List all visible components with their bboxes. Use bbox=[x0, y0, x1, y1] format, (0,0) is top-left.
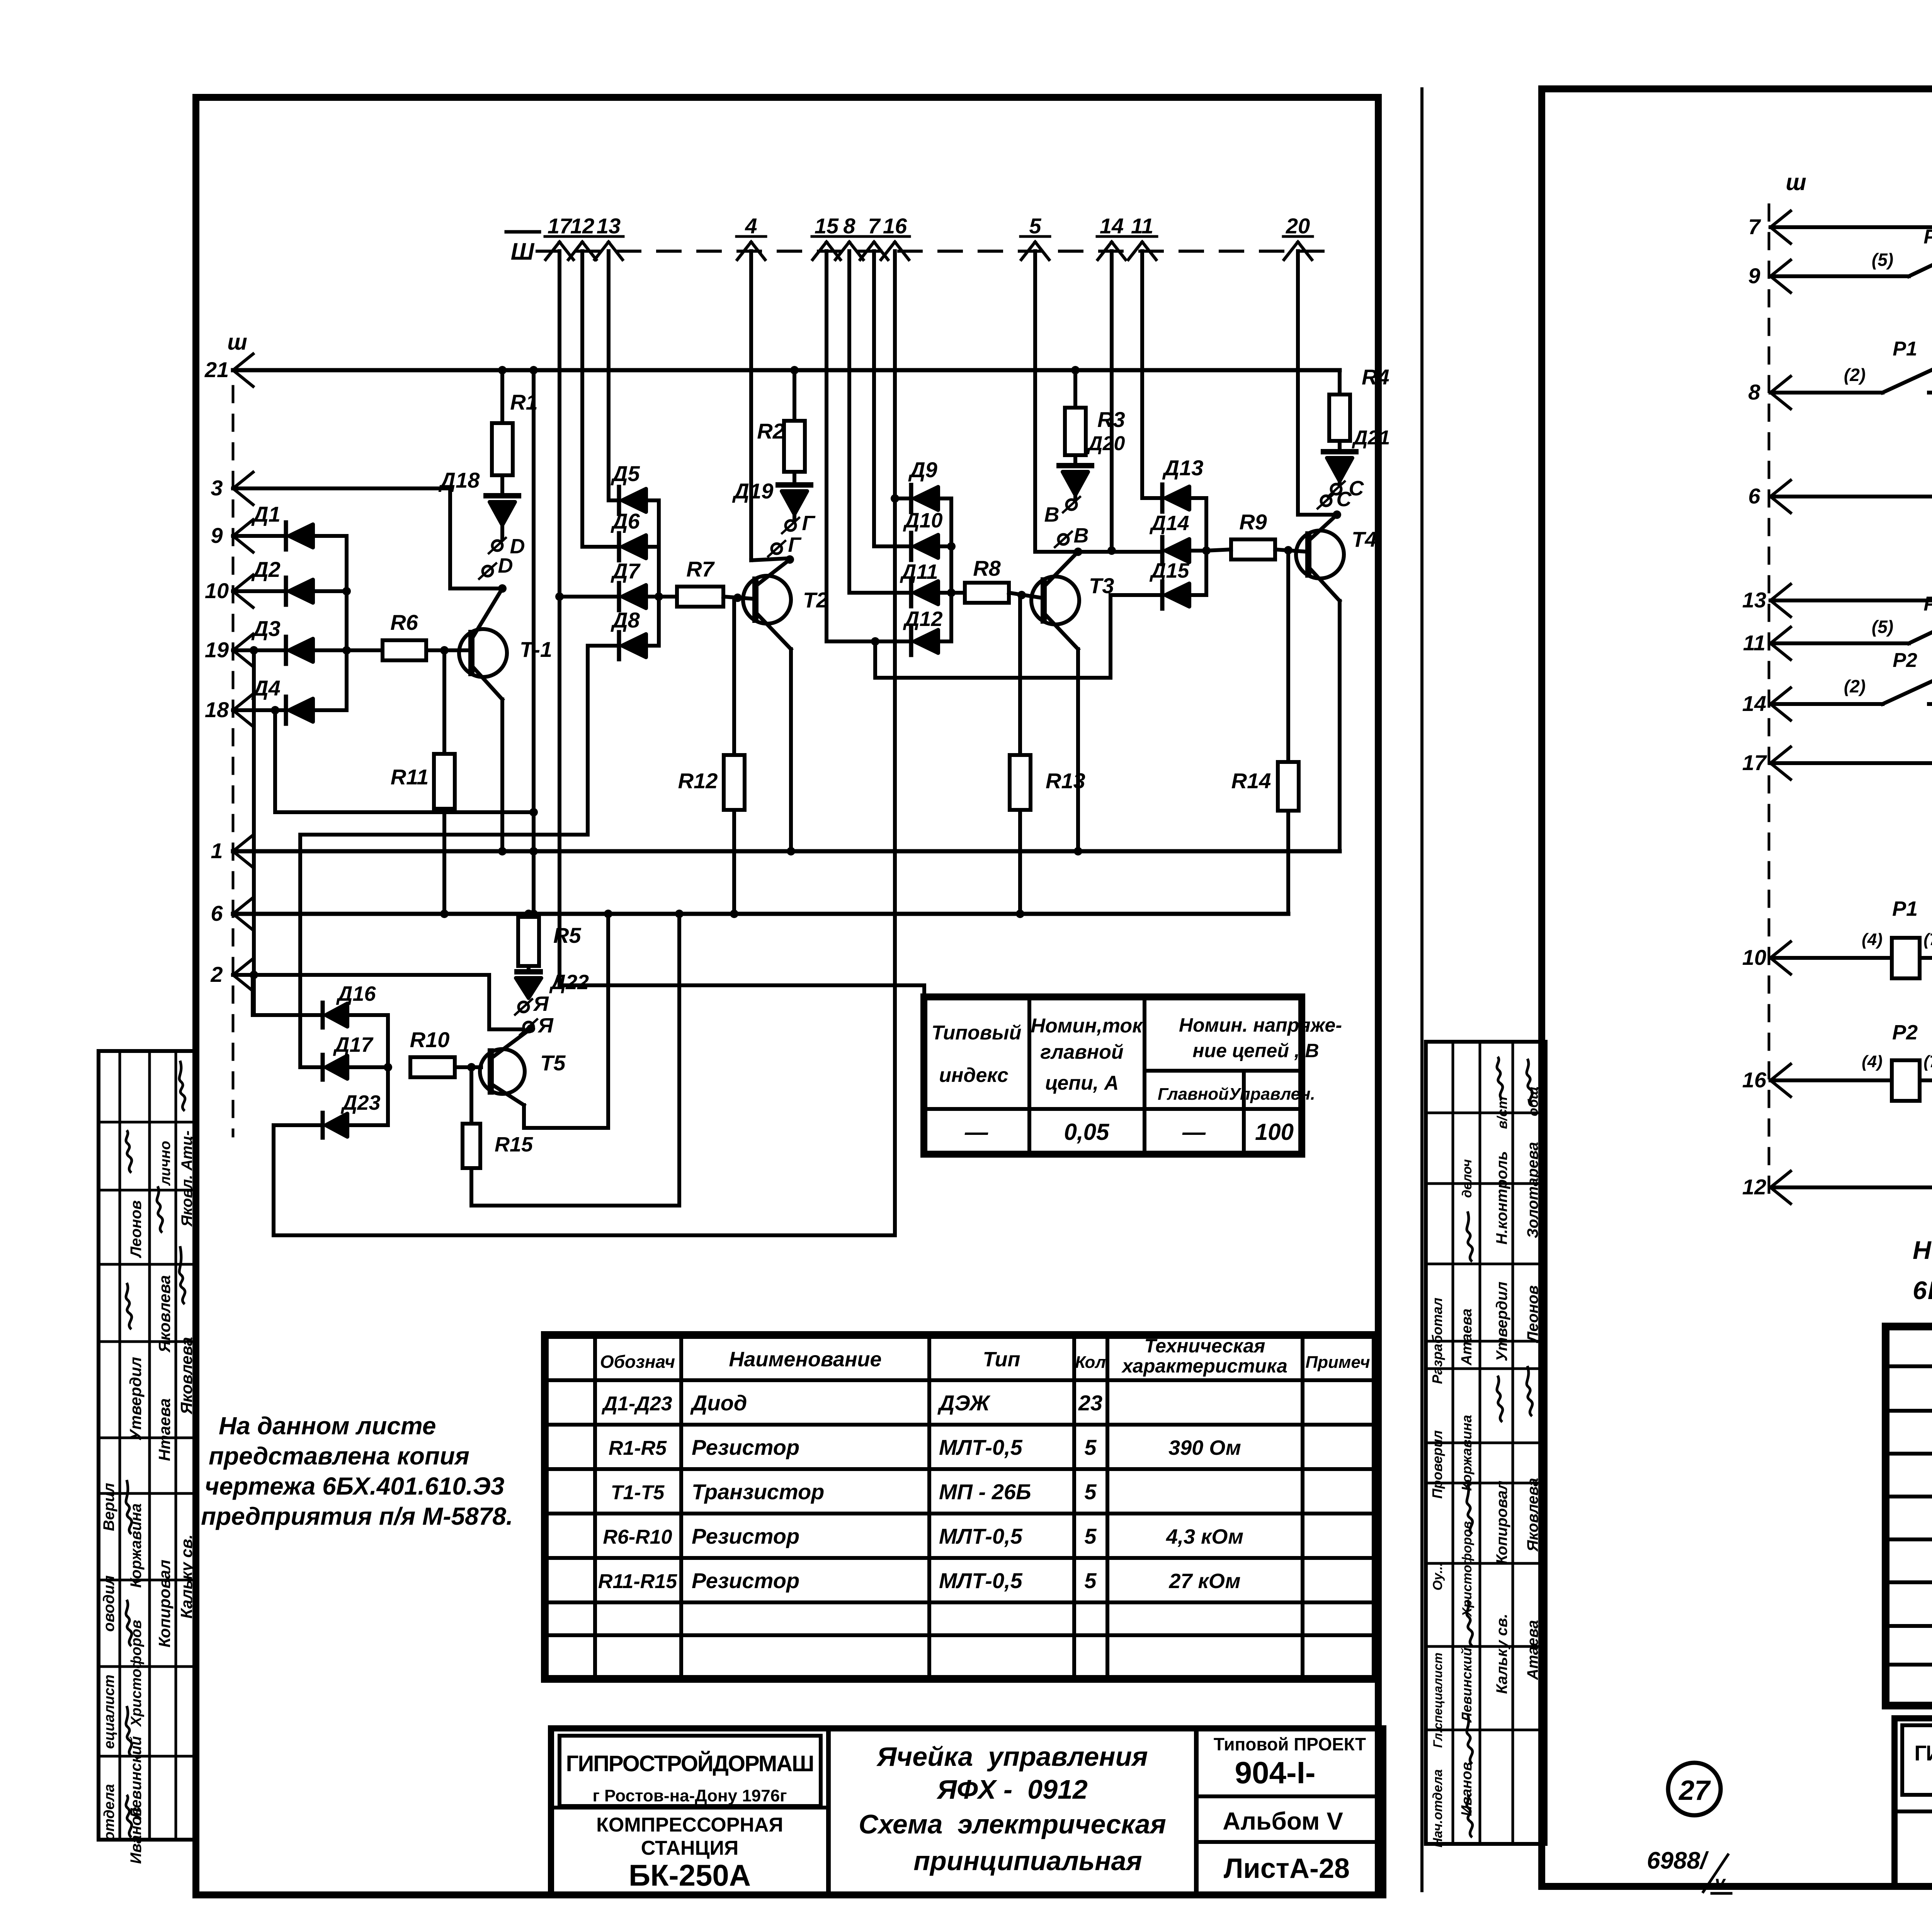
diode D5 bbox=[617, 487, 621, 514]
svg-text:Коржавина: Коржавина bbox=[1459, 1415, 1475, 1491]
svg-text:Д11: Д11 bbox=[900, 560, 938, 583]
svg-text:Д13: Д13 bbox=[1162, 456, 1204, 480]
diode D9 bbox=[891, 494, 899, 503]
T3 collector bbox=[1044, 613, 1078, 649]
svg-text:904-I-: 904-I- bbox=[1235, 1755, 1316, 1790]
right sheet terminal 10 bbox=[1770, 942, 1791, 958]
svg-text:5: 5 bbox=[1084, 1480, 1097, 1504]
wire node B line bbox=[1035, 550, 1160, 554]
svg-text:Наименование: Наименование bbox=[729, 1348, 881, 1371]
svg-text:Кальку св.: Кальку св. bbox=[177, 1534, 196, 1619]
svg-text:Резистор: Резистор bbox=[692, 1568, 799, 1593]
wire drop 14 bbox=[1110, 251, 1114, 551]
svg-text:15: 15 bbox=[815, 214, 839, 238]
wire R7 to T2 bbox=[723, 597, 755, 599]
svg-text:Д21: Д21 bbox=[1352, 427, 1390, 449]
svg-text:17: 17 bbox=[548, 214, 573, 238]
svg-text:27 кОм: 27 кОм bbox=[1168, 1570, 1240, 1593]
right sheet terminal 12 bbox=[1770, 1171, 1791, 1187]
terminal 3 bbox=[233, 472, 253, 488]
svg-text:Типовый: Типовый bbox=[932, 1022, 1022, 1044]
svg-text:(4): (4) bbox=[1862, 1052, 1883, 1071]
diode D19 bbox=[793, 472, 796, 485]
resistor R13 bbox=[1018, 595, 1022, 755]
T1 collector bbox=[471, 665, 502, 699]
T2 collector bbox=[755, 612, 791, 649]
right sheet terminal 14 bbox=[1770, 688, 1791, 704]
svg-text:12: 12 bbox=[570, 214, 594, 238]
T4 collector bbox=[1308, 567, 1340, 601]
svg-text:Кальку св.: Кальку св. bbox=[1493, 1614, 1510, 1694]
diode D7 bbox=[560, 595, 617, 599]
bus terminal 17 arrow bbox=[546, 242, 560, 260]
diode D3 bbox=[284, 637, 288, 664]
svg-text:Д5: Д5 bbox=[611, 461, 640, 486]
svg-text:представлена копия: представлена копия bbox=[209, 1442, 469, 1470]
svg-text:отдела: отдела bbox=[101, 1784, 117, 1840]
svg-text:Номин. напряже-: Номин. напряже- bbox=[1179, 1014, 1342, 1036]
svg-text:100: 100 bbox=[1255, 1119, 1294, 1145]
svg-text:9: 9 bbox=[1748, 264, 1760, 288]
svg-text:ЛистА-28: ЛистА-28 bbox=[1224, 1853, 1350, 1884]
svg-text:Д17: Д17 bbox=[333, 1033, 374, 1056]
bus terminal 20 arrow bbox=[1284, 242, 1298, 260]
svg-text:цепи, А: цепи, А bbox=[1045, 1072, 1119, 1094]
svg-text:(5): (5) bbox=[1872, 250, 1893, 270]
svg-text:Атаева: Атаева bbox=[1459, 1308, 1475, 1366]
svg-text:Д1: Д1 bbox=[251, 502, 281, 526]
svg-text:6988/: 6988/ bbox=[1647, 1847, 1709, 1874]
bus terminal 14 arrow bbox=[1098, 242, 1112, 260]
svg-text:Копировал: Копировал bbox=[155, 1560, 173, 1647]
svg-text:Я: Я bbox=[532, 992, 549, 1015]
svg-text:СТАНЦИЯ: СТАНЦИЯ bbox=[641, 1837, 739, 1859]
svg-text:Нтаева: Нтаева bbox=[155, 1398, 173, 1461]
svg-text:Д16: Д16 bbox=[336, 982, 376, 1005]
diode D17 bbox=[300, 1065, 320, 1069]
svg-text:Я: Я bbox=[537, 1014, 554, 1037]
svg-text:Д14: Д14 bbox=[1149, 512, 1189, 535]
svg-text:v: v bbox=[1715, 1872, 1726, 1893]
svg-text:Кол: Кол bbox=[1075, 1353, 1106, 1372]
svg-text:R3: R3 bbox=[1097, 407, 1125, 432]
title block right sheet bbox=[1895, 1718, 1932, 1886]
node Ya upper bbox=[519, 1002, 529, 1012]
terminal 10 bbox=[233, 575, 253, 591]
svg-text:характеристика: характеристика bbox=[1121, 1355, 1287, 1377]
node C under D21 bbox=[1331, 484, 1341, 494]
svg-text:11: 11 bbox=[1131, 214, 1153, 238]
svg-text:Разработал: Разработал bbox=[1429, 1298, 1445, 1384]
diode D20 bbox=[1073, 455, 1077, 466]
svg-text:11: 11 bbox=[1743, 631, 1765, 655]
diode D22 bbox=[527, 966, 531, 972]
svg-text:9: 9 bbox=[211, 523, 223, 548]
resistor R1 bbox=[500, 370, 504, 423]
svg-text:Р2: Р2 bbox=[1923, 593, 1932, 615]
terminal 18 bbox=[233, 694, 253, 710]
svg-text:R2: R2 bbox=[757, 419, 785, 443]
terminal 19 bbox=[233, 634, 253, 650]
diode D18 bbox=[500, 475, 504, 496]
svg-text:5: 5 bbox=[1084, 1524, 1097, 1548]
relay coil P2 bbox=[1770, 1078, 1892, 1082]
svg-text:оводил: оводил bbox=[100, 1575, 117, 1632]
svg-text:Главной: Главной bbox=[1158, 1085, 1229, 1104]
svg-text:(5): (5) bbox=[1872, 617, 1893, 637]
diode D23 bbox=[274, 1123, 320, 1127]
svg-text:Т3: Т3 bbox=[1089, 573, 1114, 598]
svg-text:390 Ом: 390 Ом bbox=[1168, 1436, 1241, 1459]
svg-text:5: 5 bbox=[1029, 214, 1041, 238]
wire R8 to T3 bbox=[1009, 593, 1044, 598]
wire R6 to T1 bbox=[426, 648, 471, 652]
svg-text:Примеч: Примеч bbox=[1306, 1353, 1370, 1372]
svg-text:R4: R4 bbox=[1362, 365, 1389, 389]
svg-text:(7): (7) bbox=[1923, 930, 1932, 949]
svg-text:16: 16 bbox=[883, 214, 907, 238]
right margin signature strip bbox=[1426, 1042, 1546, 1844]
terminal 2 bbox=[233, 959, 253, 975]
right sheet terminal 8 bbox=[1770, 376, 1791, 393]
svg-text:Утвердил: Утвердил bbox=[126, 1357, 145, 1441]
wire drop 20 bbox=[1296, 251, 1300, 515]
svg-text:—: — bbox=[964, 1119, 988, 1145]
svg-text:D: D bbox=[498, 554, 513, 577]
svg-text:ш: ш bbox=[227, 330, 247, 355]
svg-text:5: 5 bbox=[1084, 1568, 1097, 1593]
svg-text:27: 27 bbox=[1678, 1775, 1711, 1806]
svg-text:Яковлева: Яковлева bbox=[177, 1337, 196, 1415]
svg-text:6: 6 bbox=[211, 901, 223, 925]
right sheet terminal 11 bbox=[1770, 627, 1791, 643]
wire drop 11 bbox=[1140, 251, 1144, 498]
wire line 21 bbox=[233, 368, 1340, 372]
svg-text:7: 7 bbox=[868, 214, 881, 238]
svg-text:Д15: Д15 bbox=[1149, 559, 1189, 582]
svg-text:7: 7 bbox=[1748, 214, 1761, 239]
resistor R7 bbox=[659, 595, 677, 599]
left sheet border frame bbox=[196, 97, 1378, 1895]
resistor R5 bbox=[524, 910, 533, 918]
svg-text:R7: R7 bbox=[686, 557, 715, 581]
svg-text:Гл.специалист: Гл.специалист bbox=[1431, 1653, 1445, 1748]
right sheet left dashed bus bbox=[1768, 205, 1770, 1194]
svg-text:ГИПРОСТРОЙДОРМАШ: ГИПРОСТРОЙДОРМАШ bbox=[1914, 1741, 1932, 1765]
svg-text:Яковл. Атц-: Яковл. Атц- bbox=[179, 1131, 196, 1227]
wire drop 17 bbox=[558, 251, 561, 985]
resistor R3 bbox=[1073, 370, 1077, 408]
wire line 18 bbox=[233, 708, 286, 712]
svg-text:18: 18 bbox=[205, 697, 229, 722]
svg-text:Д6: Д6 bbox=[611, 509, 640, 533]
svg-text:Д18: Д18 bbox=[439, 468, 480, 492]
diode D6 bbox=[617, 533, 621, 560]
svg-text:Номин,ток: Номин,ток bbox=[1031, 1015, 1143, 1037]
svg-text:R6: R6 bbox=[390, 610, 418, 634]
node G under D19 bbox=[786, 520, 796, 531]
svg-text:16: 16 bbox=[1742, 1068, 1767, 1092]
svg-text:10: 10 bbox=[205, 578, 229, 603]
right sheet terminal 16 bbox=[1770, 1064, 1791, 1080]
svg-text:Яковлева: Яковлева bbox=[1524, 1478, 1541, 1552]
svg-text:Альбом V: Альбом V bbox=[1223, 1807, 1343, 1835]
svg-text:(7): (7) bbox=[1923, 1052, 1932, 1071]
terminal 21 bbox=[233, 354, 253, 370]
component table right sheet bbox=[1886, 1327, 1932, 1706]
title block left sheet bbox=[551, 1728, 1383, 1895]
svg-text:Н.контроль: Н.контроль bbox=[1493, 1151, 1510, 1245]
svg-text:R9: R9 bbox=[1239, 510, 1267, 534]
node C at T4 bbox=[1321, 496, 1331, 506]
svg-text:Д2: Д2 bbox=[251, 557, 281, 582]
svg-text:R12: R12 bbox=[678, 769, 718, 793]
resistor R9 bbox=[1206, 549, 1231, 551]
svg-text:0,05: 0,05 bbox=[1064, 1119, 1110, 1145]
bus terminal 8 arrow bbox=[835, 242, 849, 260]
svg-text:Ячейка управления: Ячейка управления bbox=[876, 1742, 1148, 1772]
svg-text:Д12: Д12 bbox=[903, 607, 942, 631]
svg-text:Управлен.: Управлен. bbox=[1229, 1085, 1315, 1104]
svg-text:Обознач: Обознач bbox=[600, 1352, 675, 1372]
wire D8 branch bbox=[586, 646, 590, 835]
node B under D20 bbox=[1066, 500, 1077, 510]
wire drop x1381 bbox=[532, 370, 536, 914]
svg-text:Утвердил: Утвердил bbox=[1493, 1282, 1510, 1362]
diode D10 bbox=[909, 533, 913, 560]
svg-text:8: 8 bbox=[1748, 380, 1760, 404]
svg-text:21: 21 bbox=[204, 357, 229, 382]
diode D21 bbox=[1338, 441, 1342, 452]
svg-text:в/ст: в/ст bbox=[1494, 1097, 1510, 1129]
svg-text:10: 10 bbox=[1742, 945, 1766, 969]
svg-text:ециалист: ециалист bbox=[101, 1675, 117, 1749]
svg-text:R13: R13 bbox=[1046, 769, 1085, 793]
diode D15 bbox=[1160, 582, 1165, 609]
svg-text:(2): (2) bbox=[1844, 676, 1866, 696]
svg-text:14: 14 bbox=[1742, 691, 1766, 716]
wire line19 branch bbox=[252, 650, 256, 1015]
wire line 2 bbox=[233, 973, 489, 977]
svg-text:(4): (4) bbox=[1862, 930, 1883, 949]
node Ya lower bbox=[524, 1022, 534, 1032]
bus terminal 11 arrow bbox=[1128, 242, 1142, 260]
svg-text:делоч: делоч bbox=[1460, 1159, 1475, 1198]
bus terminal 12 arrow bbox=[568, 242, 582, 260]
svg-text:Д20: Д20 bbox=[1087, 432, 1125, 455]
svg-text:Д22: Д22 bbox=[549, 971, 589, 994]
svg-text:Р1: Р1 bbox=[1892, 897, 1918, 920]
svg-text:Диод: Диод bbox=[690, 1391, 747, 1415]
diode D4 bbox=[284, 697, 288, 724]
svg-text:Т2: Т2 bbox=[803, 588, 828, 612]
svg-text:Проверил: Проверил bbox=[1429, 1430, 1445, 1498]
wire D23 long link bbox=[274, 1233, 895, 1237]
svg-text:Д8: Д8 bbox=[611, 608, 640, 632]
svg-text:(2): (2) bbox=[1844, 365, 1866, 385]
svg-text:23: 23 bbox=[1078, 1391, 1102, 1415]
diode D14 bbox=[1160, 537, 1165, 564]
svg-text:4: 4 bbox=[745, 214, 757, 238]
T2 emitter bbox=[755, 560, 790, 586]
resistor R15 bbox=[469, 1067, 473, 1124]
svg-text:R11-R15: R11-R15 bbox=[598, 1570, 677, 1593]
diode D11 bbox=[909, 579, 913, 606]
bus terminal 7 arrow bbox=[860, 242, 874, 260]
bus terminal 5 arrow bbox=[1021, 242, 1035, 260]
svg-text:14: 14 bbox=[1100, 214, 1124, 238]
relay coil P1 bbox=[1770, 956, 1892, 960]
resistor R8 bbox=[951, 591, 965, 595]
wire line 6 bbox=[233, 912, 1288, 916]
transistor T5 bbox=[480, 1049, 525, 1094]
svg-text:Г: Г bbox=[788, 533, 802, 556]
svg-text:Левинский: Левинский bbox=[1459, 1648, 1475, 1723]
diode D2 bbox=[284, 578, 288, 605]
svg-text:R14: R14 bbox=[1231, 769, 1271, 793]
svg-text:индекс: индекс bbox=[939, 1064, 1009, 1087]
wire stack2 right bbox=[949, 498, 953, 641]
svg-text:Оу...: Оу... bbox=[1430, 1563, 1445, 1590]
svg-text:Транзистор: Транзистор bbox=[692, 1480, 824, 1504]
wire line 13 bbox=[1770, 599, 1932, 602]
svg-text:Д19: Д19 bbox=[732, 479, 774, 503]
wire stack3 right bbox=[1204, 498, 1208, 595]
svg-text:Коржавина: Коржавина bbox=[128, 1503, 145, 1588]
svg-text:Золотарева: Золотарева bbox=[1524, 1142, 1541, 1238]
svg-text:Р2: Р2 bbox=[1893, 649, 1917, 672]
svg-text:Т4: Т4 bbox=[1352, 527, 1377, 551]
svg-text:Р2: Р2 bbox=[1892, 1021, 1918, 1044]
svg-text:13: 13 bbox=[1742, 588, 1766, 612]
wire line 3 bbox=[233, 486, 450, 490]
svg-text:предприятия п/я М-5878.: предприятия п/я М-5878. bbox=[201, 1502, 513, 1530]
wire line 7 bbox=[1770, 225, 1932, 229]
diode D1 bbox=[284, 522, 288, 549]
svg-text:20: 20 bbox=[1286, 214, 1310, 238]
terminal 1 bbox=[233, 835, 253, 851]
svg-text:МЛТ-0,5: МЛТ-0,5 bbox=[939, 1568, 1023, 1593]
resistor R2 bbox=[793, 370, 796, 421]
wire drop 8 bbox=[847, 251, 851, 593]
terminal 6 bbox=[233, 898, 253, 914]
svg-text:Леонов: Леонов bbox=[1524, 1285, 1541, 1343]
contact P2 lower bbox=[1770, 702, 1883, 706]
bus Sh dashed line bbox=[537, 250, 1325, 253]
svg-text:Т5: Т5 bbox=[540, 1051, 566, 1075]
svg-text:3: 3 bbox=[211, 476, 223, 500]
svg-text:МП - 26Б: МП - 26Б bbox=[939, 1480, 1031, 1504]
small table left sheet bbox=[924, 997, 1302, 1154]
bus terminal 4 arrow bbox=[737, 242, 751, 260]
svg-text:R6-R10: R6-R10 bbox=[603, 1526, 672, 1548]
transistor T2 bbox=[743, 576, 791, 624]
svg-text:R5: R5 bbox=[553, 923, 581, 947]
svg-text:принципиальная: принципиальная bbox=[913, 1846, 1142, 1876]
resistor R6 bbox=[347, 648, 383, 652]
svg-text:12: 12 bbox=[1742, 1175, 1766, 1199]
svg-text:г Ростов-на-Дону 1976г: г Ростов-на-Дону 1976г bbox=[592, 1786, 787, 1805]
wire D12 feedback bbox=[873, 641, 877, 678]
svg-text:5: 5 bbox=[1084, 1435, 1097, 1459]
svg-text:Яковлева: Яковлева bbox=[155, 1275, 173, 1353]
svg-text:главной: главной bbox=[1040, 1041, 1123, 1063]
svg-text:2: 2 bbox=[210, 962, 223, 986]
svg-text:КОМПРЕССОРНАЯ: КОМПРЕССОРНАЯ bbox=[596, 1814, 783, 1836]
svg-text:В: В bbox=[1074, 524, 1089, 547]
resistor R10 bbox=[410, 1057, 455, 1077]
svg-text:ние цепей , В: ние цепей , В bbox=[1192, 1040, 1319, 1061]
svg-text:1: 1 bbox=[211, 838, 223, 863]
svg-text:6БХ.401.611.Э3 предприятия п: 6БХ.401.611.Э3 предприятия п/я м - 5878. bbox=[1913, 1276, 1932, 1304]
wire drop 7 bbox=[872, 251, 876, 546]
svg-text:—: — bbox=[1182, 1119, 1206, 1145]
svg-text:19: 19 bbox=[205, 638, 229, 662]
resistor R4 bbox=[1338, 370, 1342, 395]
node G at T2 bbox=[772, 544, 782, 554]
svg-text:R8: R8 bbox=[973, 556, 1001, 580]
svg-text:Резистор: Резистор bbox=[692, 1435, 799, 1459]
svg-text:4,3 кОм: 4,3 кОм bbox=[1166, 1525, 1243, 1548]
wire drop 4 to node G bbox=[749, 251, 753, 560]
wire stack1 right bbox=[657, 500, 661, 646]
svg-text:Копировал: Копировал bbox=[1493, 1481, 1510, 1565]
svg-text:Нач.отдела: Нач.отдела bbox=[1430, 1769, 1445, 1847]
T5 collector bbox=[492, 1084, 524, 1105]
svg-text:Д9: Д9 bbox=[908, 457, 937, 482]
transistor T1 bbox=[459, 629, 507, 677]
svg-text:R11: R11 bbox=[391, 765, 429, 789]
wire line 10 bbox=[233, 589, 286, 593]
wire drop 16 long bbox=[893, 251, 897, 1235]
transistor T4 bbox=[1296, 531, 1344, 578]
svg-text:Д1-Д23: Д1-Д23 bbox=[601, 1393, 672, 1415]
wire line 9 bbox=[233, 534, 286, 538]
contact P2 upper bbox=[1770, 641, 1909, 645]
right sheet terminal 7 bbox=[1770, 211, 1791, 227]
wire line 19 bbox=[233, 648, 286, 652]
svg-text:Д3: Д3 bbox=[251, 616, 281, 641]
contact P1 lower bbox=[1770, 391, 1883, 395]
wire line 1 bbox=[233, 849, 1340, 854]
sheet separator line bbox=[1420, 89, 1423, 1891]
T1 emitter bbox=[471, 588, 502, 639]
svg-text:С: С bbox=[1349, 477, 1364, 500]
right sheet terminal 13 bbox=[1770, 584, 1791, 600]
bus terminal 13 arrow bbox=[595, 242, 609, 260]
bus terminal 16 arrow bbox=[881, 242, 895, 260]
svg-text:Тип: Тип bbox=[983, 1348, 1020, 1371]
right sheet terminal 6 bbox=[1770, 480, 1791, 497]
diode D13 bbox=[1160, 485, 1165, 512]
svg-text:В: В bbox=[1044, 503, 1060, 526]
svg-text:МЛТ-0,5: МЛТ-0,5 bbox=[939, 1524, 1023, 1548]
right sheet terminal 17 bbox=[1770, 747, 1791, 763]
wire D4 branch bbox=[273, 710, 277, 812]
node D upper bbox=[492, 541, 502, 551]
svg-text:лично: лично bbox=[157, 1141, 173, 1186]
contact P1 upper bbox=[1770, 274, 1909, 278]
junction dots line 21 bbox=[498, 366, 507, 374]
svg-text:Резистор: Резистор bbox=[692, 1524, 799, 1548]
svg-text:17: 17 bbox=[1742, 750, 1767, 775]
wire R9 to T4 bbox=[1275, 549, 1308, 552]
svg-text:8: 8 bbox=[843, 214, 855, 238]
terminal 9 bbox=[233, 520, 253, 536]
left margin signature strip bbox=[99, 1051, 196, 1840]
diode D8 bbox=[588, 644, 617, 648]
svg-text:Леонов: Леонов bbox=[128, 1200, 145, 1258]
